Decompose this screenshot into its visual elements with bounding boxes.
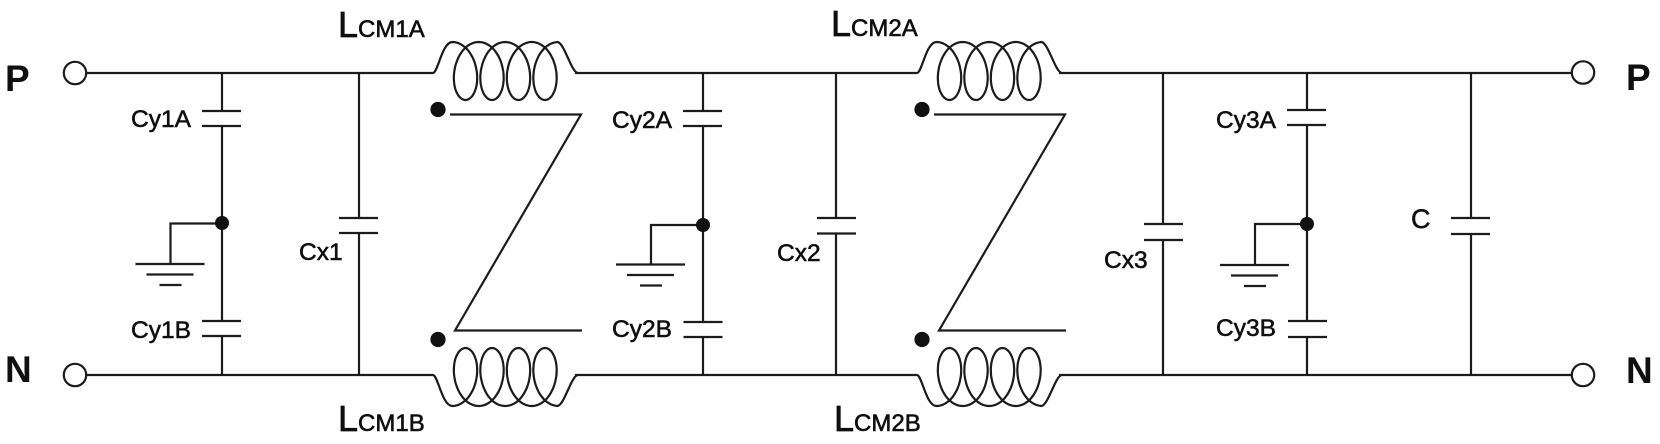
- junction node Cy1: [215, 216, 229, 230]
- wire bottom rail segment 3: [1059, 374, 1572, 376]
- svg-text:Cy1A: Cy1A: [131, 106, 192, 133]
- capacitor Cy3A: [1287, 109, 1326, 111]
- ground symbol 2: [651, 225, 703, 265]
- junction node Cy2: [696, 218, 710, 232]
- ground symbol 1: [171, 224, 223, 265]
- wire top rail segment 1: [86, 72, 433, 74]
- svg-text:Cy2B: Cy2B: [612, 316, 672, 343]
- inductor LCM2B winding: [917, 348, 1062, 406]
- junction node Cy3: [1300, 217, 1314, 231]
- capacitor Cy3B: [1288, 320, 1327, 322]
- polarity dot LCM2B: [914, 332, 929, 347]
- capacitor C: [1451, 217, 1490, 219]
- wire Cy1 branch: [221, 73, 223, 375]
- capacitor Cx3: [1144, 223, 1183, 225]
- wire top rail segment 3: [1059, 72, 1572, 74]
- svg-text:Cx3: Cx3: [1104, 247, 1148, 274]
- svg-text:N: N: [5, 349, 32, 390]
- svg-text:Cx1: Cx1: [299, 239, 343, 266]
- inductor LCM1B winding: [433, 348, 578, 406]
- svg-text:Cy3B: Cy3B: [1216, 315, 1276, 342]
- ground symbol 3: [1255, 224, 1307, 265]
- capacitor Cx2: [817, 217, 856, 219]
- svg-text:P: P: [5, 58, 30, 99]
- svg-text:C: C: [1411, 204, 1431, 234]
- capacitor Cy2B: [684, 321, 723, 323]
- terminal N left: [64, 364, 86, 386]
- wire Cx3 branch: [1162, 73, 1164, 375]
- svg-text:Cy2A: Cy2A: [612, 107, 673, 134]
- capacitor Cy1A: [202, 110, 241, 112]
- capacitor Cy1B: [202, 320, 241, 322]
- core coupling Z symbol of LCM2: [934, 115, 1066, 331]
- svg-text:Cy1B: Cy1B: [131, 317, 191, 344]
- inductor LCM1A winding: [433, 42, 578, 100]
- terminal P left: [64, 62, 86, 84]
- polarity dot LCM1B: [430, 332, 445, 347]
- wire Cy3 branch: [1306, 73, 1308, 375]
- svg-text:Cx2: Cx2: [777, 240, 821, 267]
- polarity dot LCM1A: [430, 102, 445, 117]
- wire C branch: [1470, 73, 1472, 375]
- svg-text:P: P: [1626, 57, 1651, 98]
- core coupling Z symbol of LCM1: [450, 115, 582, 331]
- svg-text:Cy3A: Cy3A: [1216, 107, 1277, 134]
- wire Cx1 branch: [358, 73, 360, 375]
- wire Cx2 branch: [835, 73, 837, 375]
- terminal N right: [1572, 364, 1594, 386]
- wire bottom rail segment 2: [575, 374, 917, 376]
- wire bottom rail segment 1: [86, 374, 433, 376]
- svg-text:N: N: [1626, 350, 1653, 391]
- capacitor Cx1: [339, 217, 378, 219]
- wire top rail segment 2: [575, 72, 917, 74]
- inductor LCM2A winding: [917, 42, 1062, 100]
- polarity dot LCM2A: [914, 102, 929, 117]
- capacitor Cy2A: [683, 110, 722, 112]
- wire Cy2 branch: [702, 73, 704, 375]
- terminal P right: [1572, 61, 1594, 83]
